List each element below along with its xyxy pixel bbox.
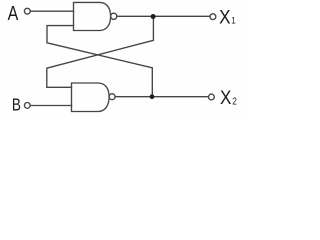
NAND gate U1 (top) bbox=[74, 2, 111, 30]
wire A to top gate input bbox=[30, 10, 73, 12]
NAND gate U2 (bottom) bbox=[72, 83, 110, 112]
output terminal X2 (open circle) bbox=[209, 94, 215, 100]
input terminal A (open circle) bbox=[24, 8, 30, 14]
svg-text:1: 1 bbox=[231, 15, 236, 26]
wire feedback from node X1 down-left to U2 upper input bbox=[47, 16, 154, 87]
svg-text:X: X bbox=[219, 7, 230, 28]
svg-text:B: B bbox=[12, 96, 21, 115]
wire U2 output to X2 terminal bbox=[115, 96, 208, 98]
wire U1 output to X1 terminal bbox=[117, 15, 210, 17]
wire feedback from node X2 up-left to U1 lower input bbox=[47, 26, 152, 97]
svg-text:A: A bbox=[8, 2, 19, 24]
input terminal B (open circle) bbox=[24, 103, 30, 109]
node X2 junction dot bbox=[150, 94, 155, 99]
svg-text:X: X bbox=[220, 87, 231, 108]
svg-text:2: 2 bbox=[232, 96, 237, 107]
U2 output bubble bbox=[109, 94, 115, 100]
U1 output bubble bbox=[111, 13, 117, 19]
wire B to bottom gate input bbox=[30, 105, 71, 107]
node X1 junction dot bbox=[151, 14, 156, 19]
output terminal X1 (open circle) bbox=[210, 14, 216, 20]
